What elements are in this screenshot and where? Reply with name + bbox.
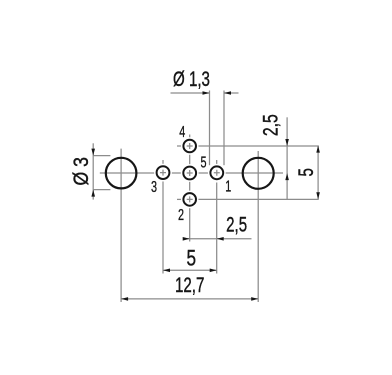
svg-text:1: 1 — [225, 178, 231, 195]
svg-text:12,7: 12,7 — [175, 273, 204, 297]
pin 4 — [183, 140, 196, 153]
wire dim 12.7 line — [121, 298, 258, 300]
mounting hole right — [243, 158, 274, 189]
mounting hole left (dia 3) — [106, 158, 137, 189]
svg-text:2: 2 — [178, 206, 184, 223]
arrow dia3 bottom — [91, 190, 95, 197]
arrow dia3 top — [91, 149, 95, 156]
wire right hole vertical centerline — [257, 151, 259, 302]
wire pin2 row left dash — [177, 198, 182, 200]
wire dash above pin3 — [162, 160, 164, 164]
arrow dim2.5 right top — [285, 139, 289, 146]
node pin2 center cross — [187, 196, 193, 202]
wire pin4 row line — [198, 145, 319, 147]
wire left hole vertical centerline — [120, 149, 122, 302]
arrow dim2.5 bottom left — [183, 237, 190, 241]
arrow dim2.5 right bottom — [285, 173, 289, 180]
arrow dim12.7 right — [251, 297, 258, 301]
wire pin3 extension line down — [162, 181, 164, 274]
arrow dim5 right bottom — [316, 192, 320, 199]
wire center row line — [100, 172, 283, 174]
svg-text:5: 5 — [200, 153, 206, 170]
arrow dim5 right top — [316, 146, 320, 153]
arrow dim2.5 bottom right — [217, 237, 224, 241]
wire pin column between pin4 and pin5 — [189, 154, 191, 166]
wire dia1.3 dimension line right part — [224, 92, 239, 94]
svg-text:2,5: 2,5 — [226, 212, 247, 236]
arrow dim5 bottom left — [163, 269, 170, 273]
wire pin column dash above pin4 — [189, 135, 191, 139]
pin 2 — [183, 193, 196, 206]
wire pin1 extension line down — [216, 183, 218, 274]
node pin3 center cross — [160, 170, 166, 176]
svg-text:3: 3 — [151, 178, 157, 195]
wire pin column between pin5 and pin2 — [189, 182, 191, 192]
wire pin4 row left dash — [177, 145, 182, 147]
wire dia1.3 left extension line — [209, 91, 211, 166]
pin 5 — [183, 167, 196, 180]
wire dia3 bottom tick — [93, 189, 110, 191]
svg-text:5: 5 — [187, 247, 197, 272]
arrow dim5 bottom right — [210, 269, 217, 273]
wire dim 2.5 right vertical line — [286, 117, 288, 199]
pin 1 — [210, 166, 223, 179]
node pin5 center cross — [187, 170, 193, 176]
svg-text:Ø 3: Ø 3 — [70, 157, 94, 185]
wire dia3 top tick — [93, 155, 110, 157]
wire dia1.3 right extension line — [223, 91, 225, 166]
svg-text:2,5: 2,5 — [258, 114, 282, 136]
pin 3 — [157, 166, 170, 179]
wire dim 5 right vertical line — [317, 146, 319, 200]
wire dia1.3 dimension line left part — [171, 92, 210, 94]
wire dim 5 bottom line — [163, 269, 217, 271]
svg-text:4: 4 — [179, 123, 185, 140]
arrow dia1.3 left — [203, 91, 210, 95]
wire dim 2.5 bottom line — [183, 238, 252, 240]
arrow dim12.7 left — [121, 297, 128, 301]
wire dia3 dimension vertical line — [92, 143, 94, 199]
svg-text:5: 5 — [293, 168, 317, 176]
wire pin2 row line — [198, 198, 319, 200]
arrow dia1.3 right — [224, 91, 231, 95]
node pin1 center cross — [214, 170, 220, 176]
node pin4 center cross — [187, 143, 193, 149]
wire pin column below pin2 extension — [189, 207, 191, 241]
svg-text:Ø 1,3: Ø 1,3 — [173, 66, 210, 90]
wire dash above pin1 — [216, 160, 218, 164]
